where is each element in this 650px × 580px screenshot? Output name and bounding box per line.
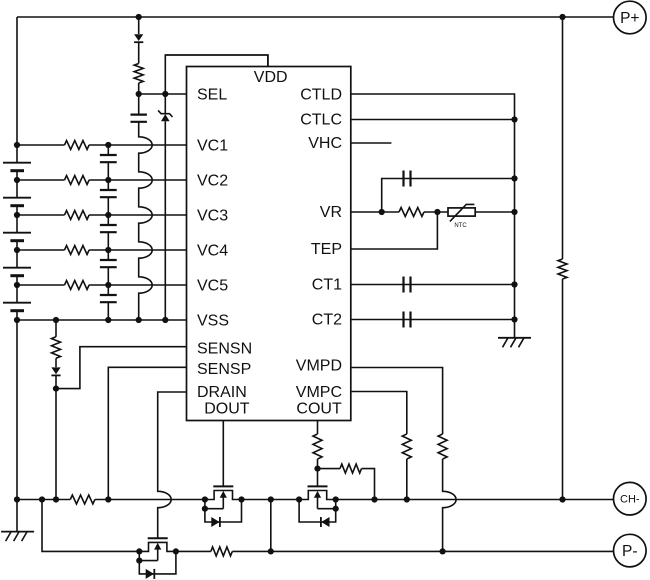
svg-text:SENSP: SENSP bbox=[197, 361, 251, 378]
svg-text:SENSN: SENSN bbox=[197, 340, 252, 357]
svg-text:P+: P+ bbox=[620, 10, 639, 27]
svg-text:VHC: VHC bbox=[308, 135, 342, 152]
svg-text:VMPD: VMPD bbox=[296, 358, 342, 375]
svg-text:P-: P- bbox=[622, 543, 638, 560]
svg-text:DRAIN: DRAIN bbox=[197, 384, 247, 401]
svg-text:VC3: VC3 bbox=[197, 207, 228, 224]
svg-text:VC5: VC5 bbox=[197, 277, 228, 294]
svg-text:VC1: VC1 bbox=[197, 137, 228, 154]
svg-text:COUT: COUT bbox=[296, 400, 342, 417]
svg-text:VC2: VC2 bbox=[197, 172, 228, 189]
svg-text:NTC: NTC bbox=[454, 223, 467, 229]
svg-text:CT1: CT1 bbox=[312, 277, 342, 294]
svg-text:VMPC: VMPC bbox=[296, 384, 342, 401]
svg-text:SEL: SEL bbox=[197, 87, 227, 104]
svg-text:VR: VR bbox=[320, 204, 342, 221]
svg-text:VDD: VDD bbox=[254, 69, 288, 86]
svg-text:DOUT: DOUT bbox=[204, 400, 250, 417]
svg-text:CH-: CH- bbox=[620, 494, 640, 506]
svg-text:CT2: CT2 bbox=[312, 312, 342, 329]
svg-text:VC4: VC4 bbox=[197, 242, 228, 259]
svg-text:CTLD: CTLD bbox=[300, 86, 342, 103]
svg-text:CTLC: CTLC bbox=[300, 112, 342, 129]
svg-text:TEP: TEP bbox=[311, 241, 342, 258]
svg-text:VSS: VSS bbox=[197, 312, 229, 329]
